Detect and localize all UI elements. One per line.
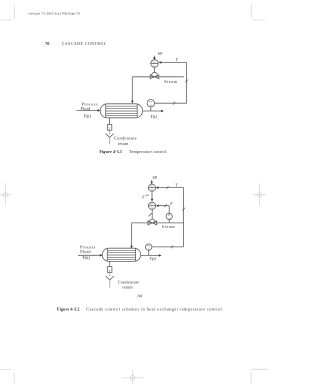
svg-text:CASCADE CONTROL: CASCADE CONTROL: [62, 42, 107, 46]
svg-text:Steam: Steam: [164, 79, 178, 84]
svg-text:Fluid: Fluid: [81, 106, 92, 111]
svg-text:T: T: [108, 127, 110, 131]
svg-text:T(t): T(t): [149, 256, 156, 261]
svg-text:(a): (a): [138, 293, 143, 298]
svg-text:Figure 4-3.1: Figure 4-3.1: [99, 149, 122, 154]
svg-text:Fluid: Fluid: [80, 249, 91, 254]
svg-text:T(t): T(t): [150, 114, 157, 119]
svg-text:F: F: [141, 195, 145, 200]
svg-text:FT: FT: [168, 215, 171, 217]
svg-text:ch4.qxd 7/1/2003 8:22 PM Pa: ch4.qxd 7/1/2003 8:22 PM Page 70: [29, 11, 80, 15]
svg-text:SP: SP: [158, 51, 163, 56]
svg-text:T: T: [176, 57, 179, 62]
svg-text:return: return: [118, 141, 129, 146]
svg-text:TC: TC: [153, 62, 156, 64]
svg-text:return: return: [122, 285, 133, 290]
svg-text:TC: TC: [150, 186, 153, 188]
svg-text:SP: SP: [153, 175, 158, 180]
svg-text:TT: TT: [147, 246, 150, 248]
svg-text:Process: Process: [80, 245, 96, 250]
svg-text:70: 70: [45, 41, 50, 46]
svg-text:T: T: [175, 183, 178, 188]
svg-text:Ti(t): Ti(t): [82, 255, 90, 260]
svg-text:Condensate: Condensate: [114, 136, 137, 141]
svg-text:Ti(t): Ti(t): [83, 114, 91, 119]
svg-text:T: T: [109, 269, 111, 273]
svg-text:set: set: [146, 193, 149, 197]
svg-text:Temperature control.: Temperature control.: [129, 149, 167, 154]
svg-text:Condensate: Condensate: [118, 279, 140, 284]
svg-text:TT: TT: [149, 102, 152, 104]
svg-text:FC: FC: [150, 204, 153, 206]
svg-text:Process: Process: [82, 102, 99, 107]
svg-text:Cascade control schemes in hea: Cascade control schemes in heat exchange…: [86, 306, 223, 311]
svg-text:Steam: Steam: [162, 224, 176, 229]
svg-text:Figure 4-3.2: Figure 4-3.2: [57, 306, 80, 311]
svg-text:F: F: [169, 201, 173, 206]
